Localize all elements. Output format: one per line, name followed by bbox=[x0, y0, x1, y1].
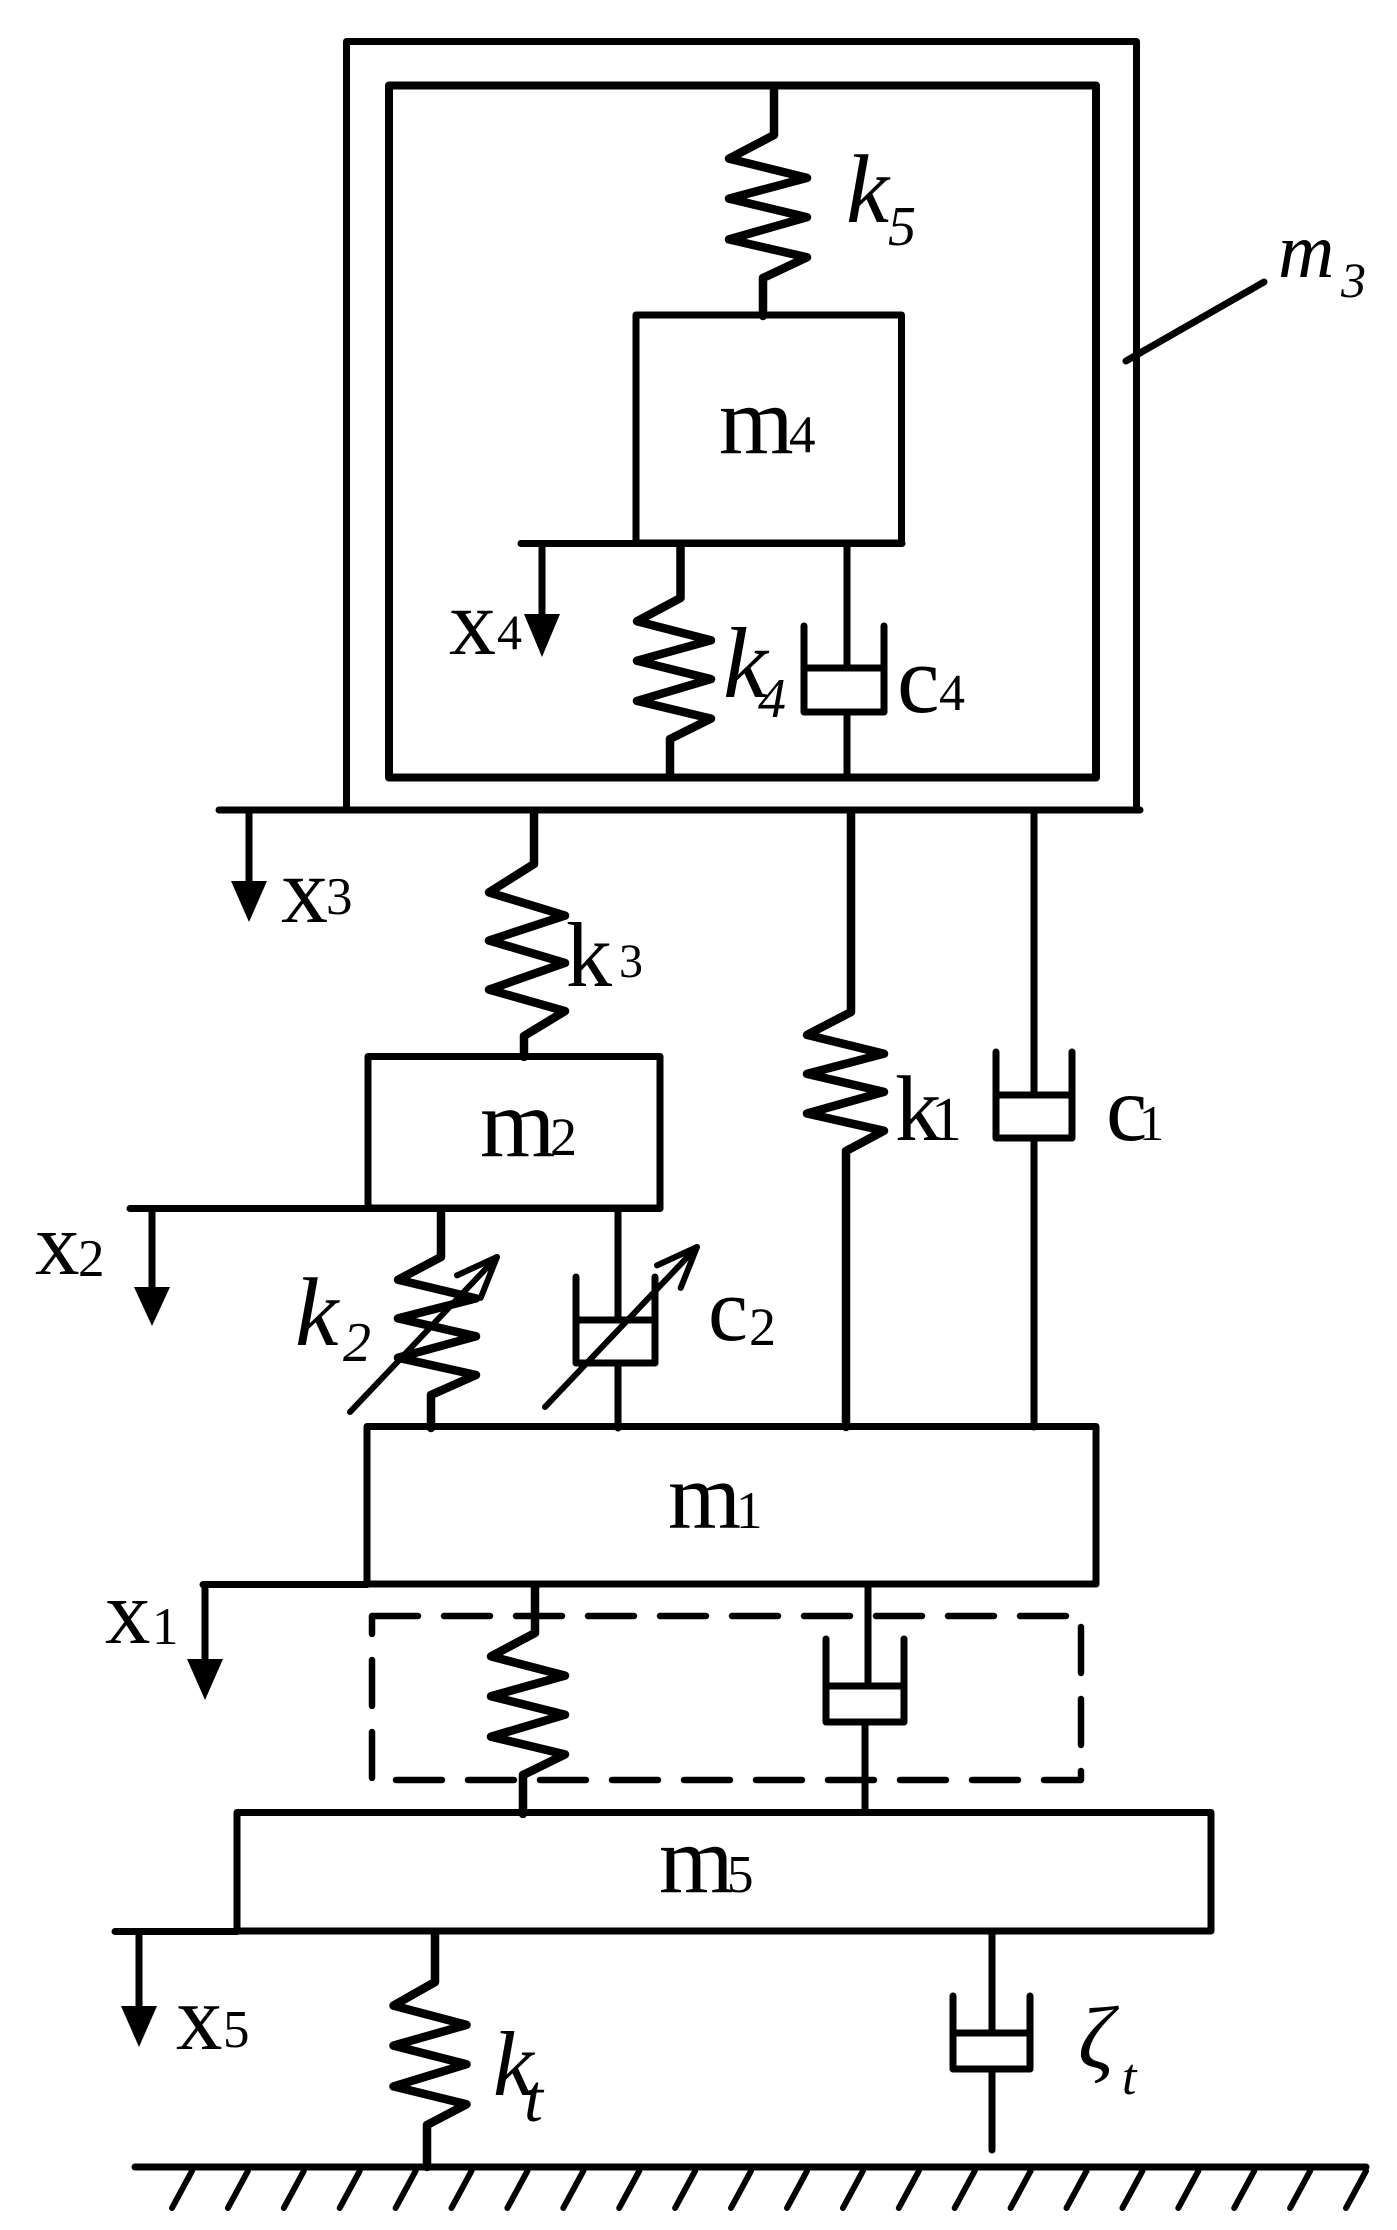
svg-text:3: 3 bbox=[1340, 252, 1366, 308]
svg-text:x: x bbox=[176, 1967, 223, 2070]
svg-text:1: 1 bbox=[152, 1598, 179, 1656]
svg-text:c: c bbox=[708, 1261, 748, 1360]
svg-text:4: 4 bbox=[497, 604, 522, 660]
svg-text:t: t bbox=[524, 2060, 545, 2136]
svg-text:x: x bbox=[281, 839, 328, 943]
svg-text:ζ: ζ bbox=[1078, 1990, 1120, 2088]
svg-text:x: x bbox=[35, 1196, 80, 1294]
svg-text:1: 1 bbox=[736, 1482, 763, 1540]
svg-text:5: 5 bbox=[888, 196, 916, 258]
svg-text:2: 2 bbox=[343, 1312, 371, 1374]
svg-text:k: k bbox=[846, 136, 891, 243]
svg-text:c: c bbox=[897, 626, 940, 733]
svg-text:k: k bbox=[295, 1259, 340, 1367]
svg-text:2: 2 bbox=[550, 1107, 577, 1167]
svg-text:m: m bbox=[659, 1806, 734, 1913]
svg-text:m: m bbox=[1278, 207, 1334, 294]
svg-text:5: 5 bbox=[223, 2001, 250, 2059]
svg-text:m: m bbox=[719, 367, 794, 474]
svg-text:m: m bbox=[668, 1445, 741, 1549]
svg-text:3: 3 bbox=[619, 935, 643, 988]
svg-text:4: 4 bbox=[789, 406, 816, 464]
svg-text:1: 1 bbox=[1139, 1095, 1164, 1151]
svg-text:k: k bbox=[566, 904, 612, 1006]
svg-text:x: x bbox=[105, 1562, 151, 1663]
svg-text:t: t bbox=[1122, 2049, 1138, 2106]
svg-text:x: x bbox=[449, 571, 496, 675]
svg-text:1: 1 bbox=[931, 1086, 962, 1154]
svg-text:2: 2 bbox=[749, 1297, 776, 1357]
svg-text:4: 4 bbox=[758, 668, 786, 730]
svg-text:m: m bbox=[480, 1070, 555, 1177]
svg-text:2: 2 bbox=[78, 1230, 105, 1288]
svg-text:5: 5 bbox=[727, 1846, 754, 1904]
svg-text:4: 4 bbox=[939, 665, 965, 722]
svg-text:3: 3 bbox=[326, 868, 353, 926]
